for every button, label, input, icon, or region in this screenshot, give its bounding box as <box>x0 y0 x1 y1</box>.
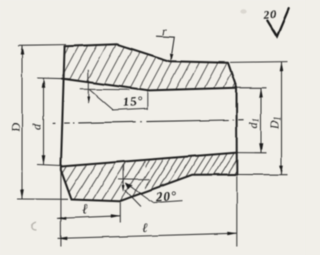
svg-text:r: r <box>162 24 167 38</box>
svg-text:d: d <box>30 123 44 130</box>
svg-text:20°: 20° <box>154 188 177 205</box>
svg-text:ℓ: ℓ <box>82 203 88 218</box>
svg-text:15°: 15° <box>122 94 144 110</box>
svg-text:ℓ: ℓ <box>142 219 148 234</box>
svg-text:20: 20 <box>262 9 277 22</box>
svg-text:D: D <box>9 123 23 133</box>
